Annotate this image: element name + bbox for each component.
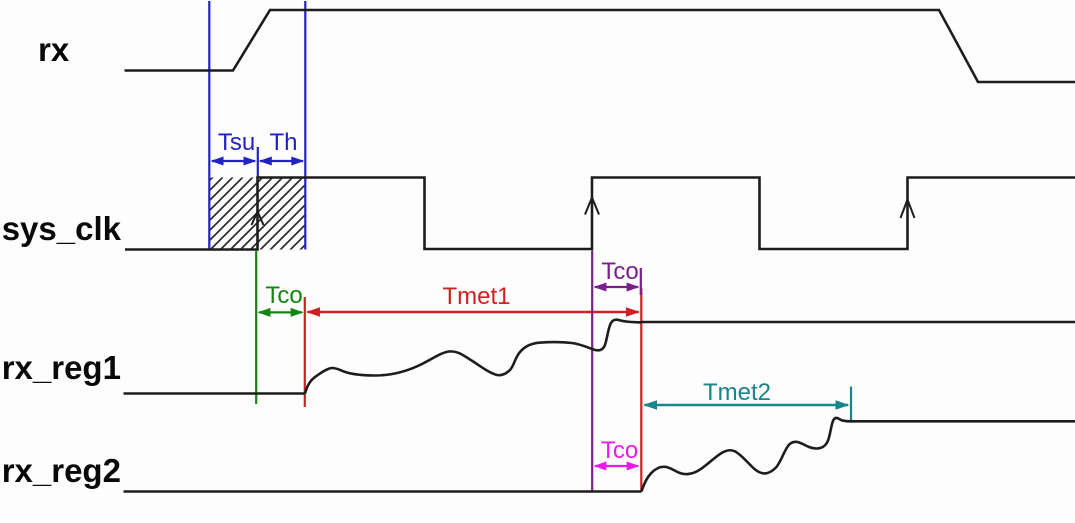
- purple guide line at 2nd clock edge: [591, 251, 593, 493]
- svg-text:Tco: Tco: [601, 437, 638, 464]
- purple tick right: [640, 268, 642, 295]
- svg-text:Tsu: Tsu: [218, 129, 255, 156]
- sys_clk waveform: [125, 178, 1075, 250]
- green clock-to-output guide line: [255, 250, 257, 404]
- blue guide line left (Tsu start): [208, 1, 210, 250]
- rx_reg1 high segment: [641, 321, 1075, 324]
- magenta Tco dimension arrow: [593, 462, 639, 471]
- clock edge arrow 1: [252, 212, 264, 226]
- blue tick at clock edge between Tsu and Th: [257, 147, 259, 178]
- Tmet2 dimension arrow: [643, 400, 850, 410]
- purple Tco dimension arrow: [593, 283, 639, 292]
- red guide line at rx_reg1 transition start: [304, 297, 306, 407]
- svg-text:Tmet1: Tmet1: [442, 283, 510, 310]
- svg-text:Th: Th: [269, 129, 297, 156]
- svg-text:sys_clk: sys_clk: [2, 210, 122, 247]
- rx_reg1 metastable wavy transition: [305, 320, 641, 394]
- clock edge arrow 2: [585, 198, 599, 215]
- Tmet1 dimension arrow: [306, 307, 640, 317]
- blue guide line right (Th end): [304, 1, 306, 250]
- teal tick at Tmet2 end: [850, 387, 852, 422]
- rx_reg2 metastable wavy transition: [642, 418, 852, 492]
- svg-text:rx_reg2: rx_reg2: [2, 452, 121, 489]
- Tsu dimension arrow: [211, 157, 257, 166]
- rx_reg1 low segment: [124, 392, 306, 395]
- Th dimension arrow: [259, 157, 305, 166]
- rx_reg2 high segment: [851, 420, 1075, 423]
- red guide line at rx_reg1 resolve / rx_reg2 launch: [640, 288, 642, 491]
- svg-text:rx_reg1: rx_reg1: [2, 349, 121, 386]
- svg-text:Tmet2: Tmet2: [703, 379, 771, 406]
- hatched setup/hold region: [210, 178, 306, 250]
- rx_reg2 low segment: [124, 490, 642, 493]
- green Tco dimension arrow: [257, 308, 303, 317]
- svg-text:rx: rx: [38, 31, 70, 68]
- rx waveform: [125, 10, 1075, 82]
- clock edge arrow 3: [901, 200, 915, 219]
- svg-text:Tco: Tco: [265, 282, 302, 309]
- svg-text:Tco: Tco: [601, 258, 638, 285]
